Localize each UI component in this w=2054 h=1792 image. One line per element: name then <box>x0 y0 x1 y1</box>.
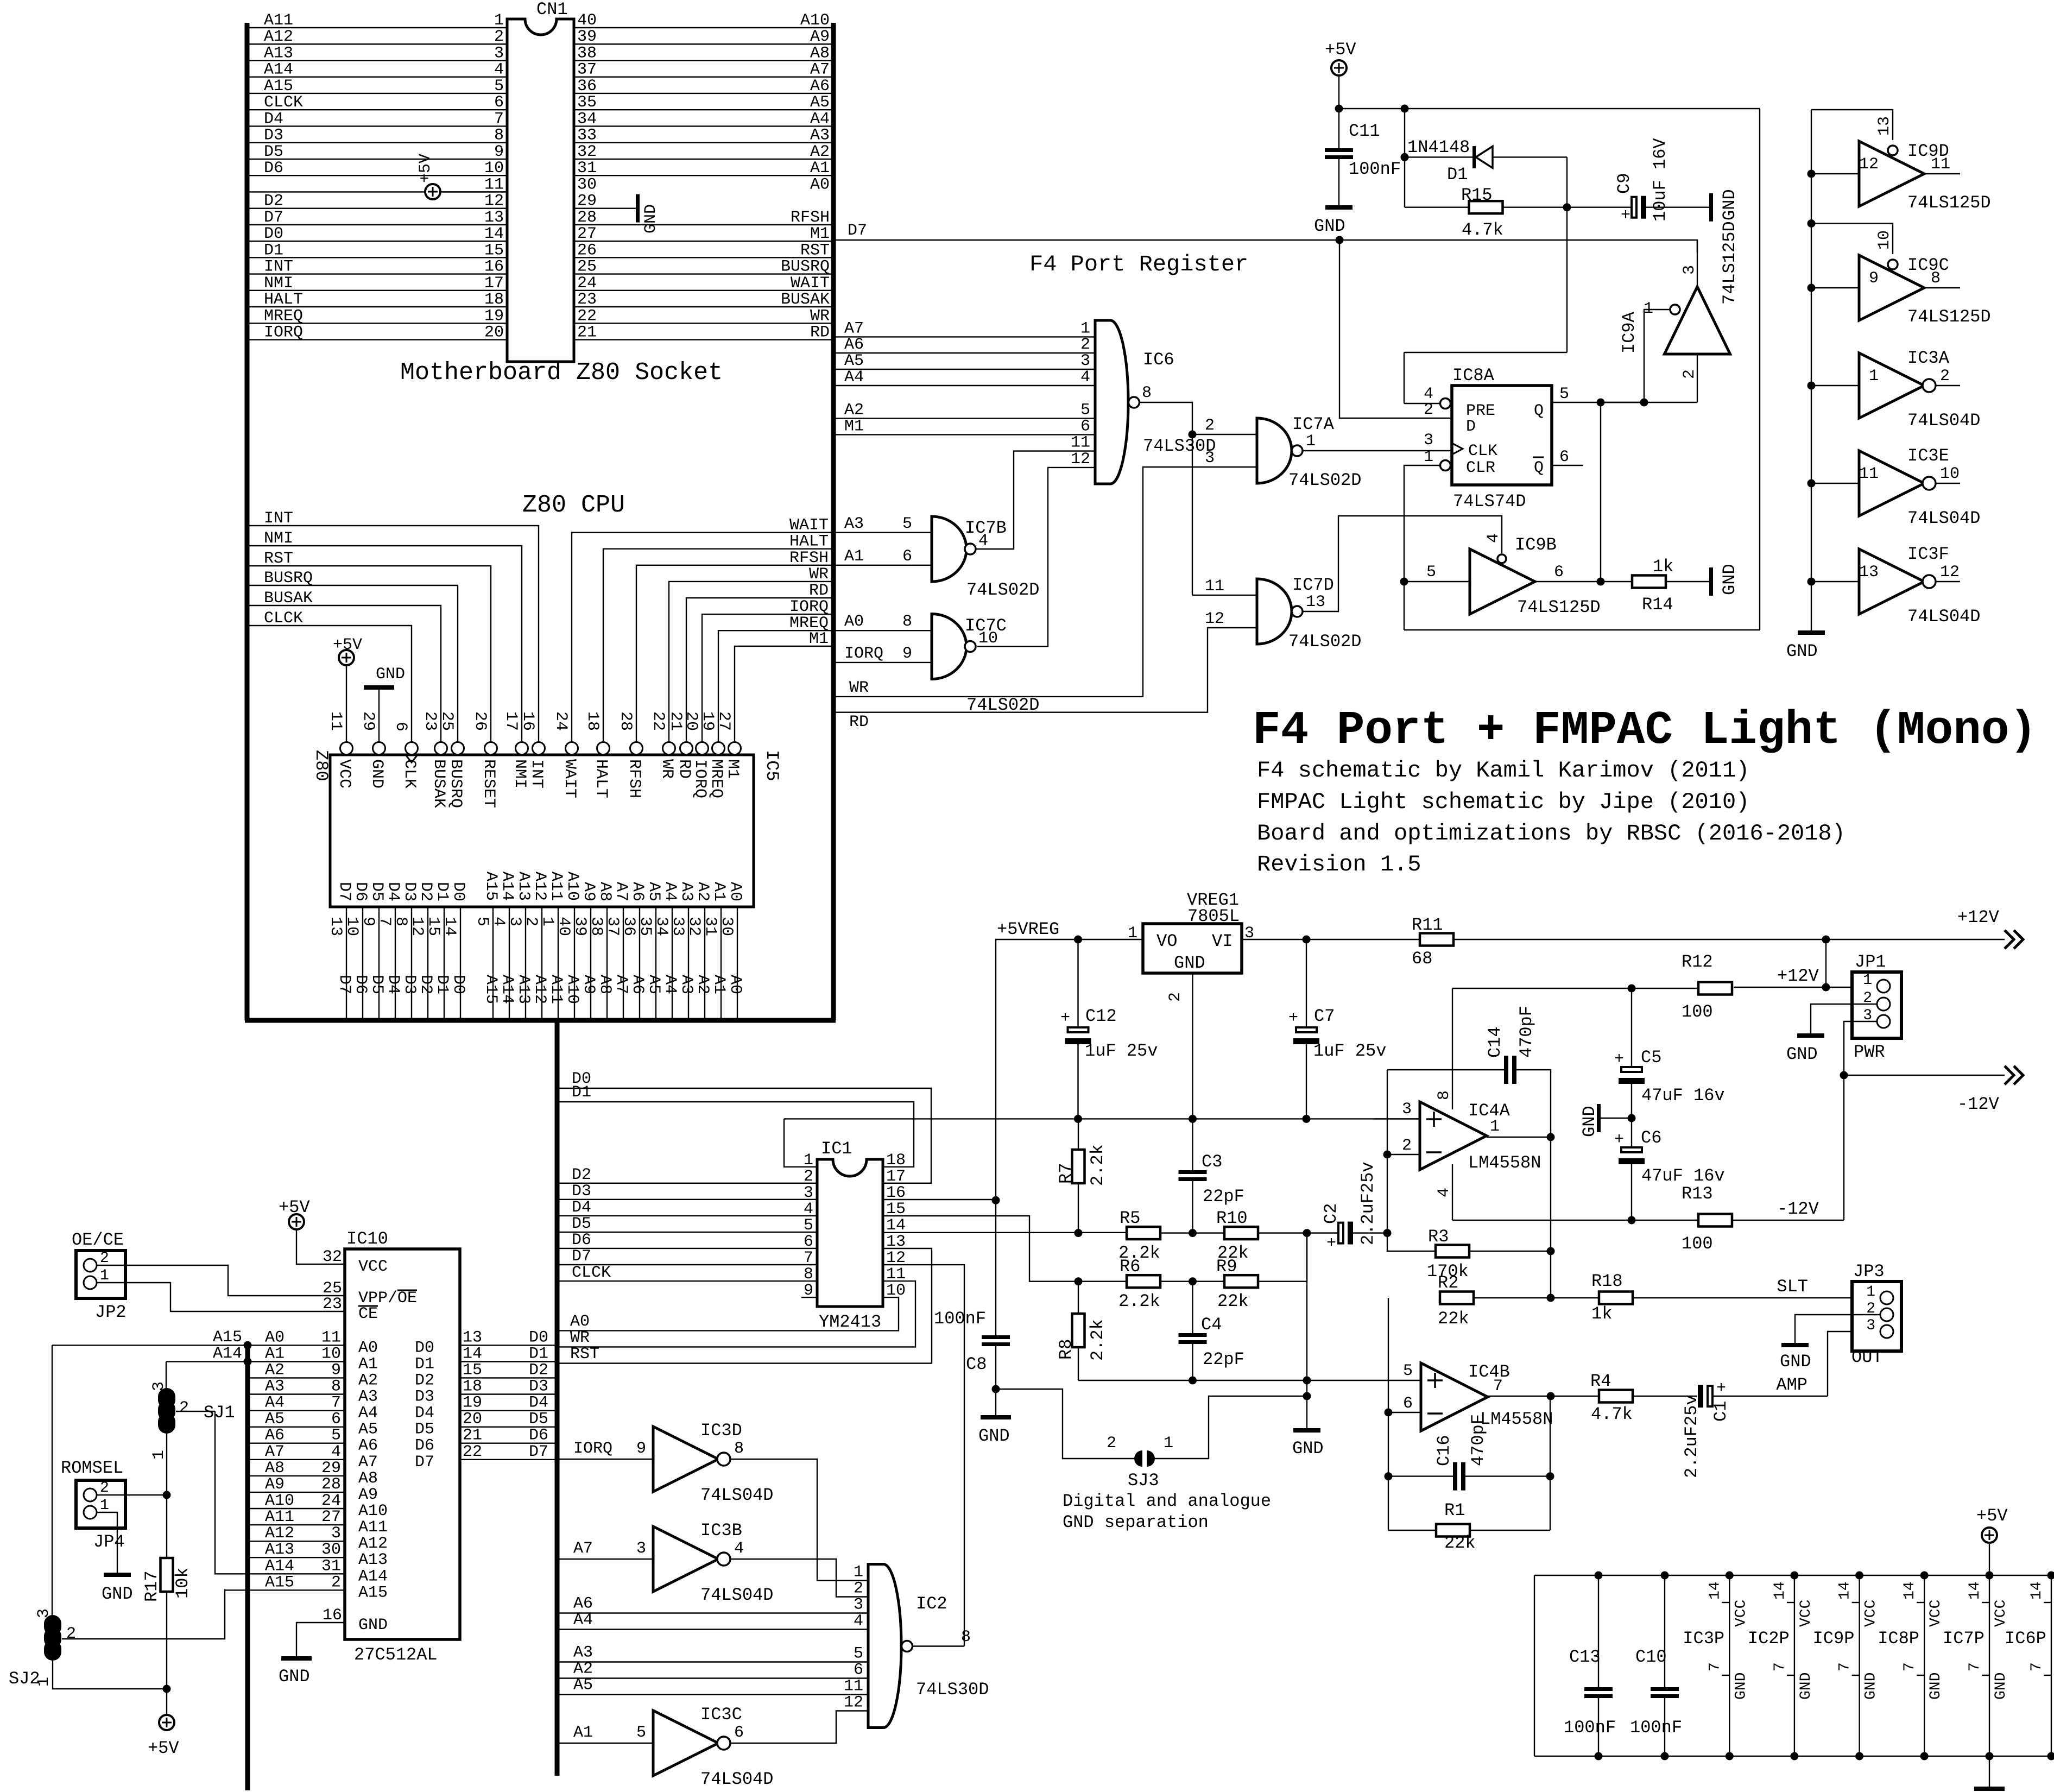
capacitor C12 1uF 25v <box>1077 939 1078 1027</box>
junction +5V rail at D1 branch <box>1401 105 1409 113</box>
wire CN1 pin 34 row <box>574 125 833 127</box>
capacitor C9 10uF 16V <box>1632 197 1636 218</box>
svg-text:9: 9 <box>902 645 912 663</box>
wire IC4A + input <box>1375 1118 1420 1119</box>
junction R5/R10 at C3 <box>1189 1229 1197 1237</box>
capacitor C4 22pF <box>1192 1282 1193 1333</box>
wire CN1 pin 23 row <box>574 306 833 307</box>
wire power block top rail <box>1534 1575 2054 1576</box>
svg-text:30: 30 <box>717 917 736 936</box>
resistor R15 <box>1405 207 1469 208</box>
sound chip IC1 YM2413 body <box>817 1159 883 1307</box>
svg-text:A2: A2 <box>693 975 712 994</box>
svg-text:A15: A15 <box>213 1328 242 1347</box>
gate IC2 74LS30D body <box>868 1564 901 1728</box>
svg-text:D5: D5 <box>368 975 386 994</box>
svg-text:10: 10 <box>321 1345 341 1363</box>
wire WR row to IC1 pin 11 <box>557 1281 915 1347</box>
power pins IC3P <box>1729 1575 1730 1756</box>
wire IC4A pin 4 V- stub <box>1452 1164 1453 1220</box>
wire D4 row to IC1 pin 4 <box>557 1215 817 1216</box>
wire CN1 pin 27 row <box>574 241 833 242</box>
junction +5V node <box>163 1685 171 1693</box>
wire JP2 pin 1 to CE <box>97 1283 345 1311</box>
svg-text:INT: INT <box>264 258 293 276</box>
connector JP2 body <box>76 1251 125 1298</box>
svg-text:20: 20 <box>484 324 504 342</box>
wire JP1 pin 2 to GND <box>1811 1004 1877 1033</box>
svg-text:D7: D7 <box>335 882 353 901</box>
svg-text:WAIT: WAIT <box>560 759 579 798</box>
svg-text:37: 37 <box>577 61 597 79</box>
svg-text:100nF: 100nF <box>1564 1718 1616 1738</box>
gate IC7B output bubble <box>965 544 976 554</box>
svg-text:A13: A13 <box>514 975 533 1004</box>
svg-text:A3: A3 <box>573 1644 593 1662</box>
svg-text:GND: GND <box>1786 1044 1818 1064</box>
gate IC7A 74LS02D body <box>1257 418 1292 483</box>
svg-text:A15: A15 <box>482 872 500 901</box>
svg-text:R3: R3 <box>1428 1227 1449 1247</box>
wire CLR to IC9B input rail <box>1404 465 1440 630</box>
junction bus at IC9C rail <box>1807 219 1816 228</box>
svg-text:2: 2 <box>100 1250 109 1267</box>
svg-text:14: 14 <box>886 1216 906 1235</box>
gate IC7C 74LS02D body <box>932 614 966 679</box>
wire IC9C output <box>1924 287 1960 288</box>
wire JP4 pin 2 to R17 node <box>97 1494 167 1496</box>
wire D3 row to IC1 pin 3 <box>557 1199 817 1200</box>
svg-text:IC2P: IC2P <box>1748 1629 1790 1649</box>
wire IC10 A5 row <box>248 1426 345 1427</box>
svg-text:26: 26 <box>577 241 597 260</box>
svg-text:29: 29 <box>321 1459 341 1478</box>
ground GND at right column bottom <box>1798 630 1825 635</box>
junction A15 at bus <box>244 1341 252 1349</box>
svg-text:12: 12 <box>1071 450 1090 469</box>
svg-text:9: 9 <box>331 1361 341 1379</box>
wire CLCK row to IC5 <box>247 626 412 742</box>
svg-text:11: 11 <box>1071 434 1090 452</box>
wire IC6 out branch to IC7A pin 2 <box>1192 434 1257 435</box>
inverter IC3F 74LS04D body <box>1859 549 1924 614</box>
svg-text:4: 4 <box>734 1539 744 1558</box>
svg-text:1: 1 <box>35 1677 53 1687</box>
wire IC10 A11 row <box>248 1524 345 1525</box>
wire CN1 pin 28 row <box>574 224 833 225</box>
svg-text:D2: D2 <box>416 882 435 901</box>
wire IC3C output to IC2 pin 12 <box>730 1711 868 1744</box>
svg-text:IC7D: IC7D <box>1292 575 1334 595</box>
wire CN1 pin 32 row <box>574 159 833 160</box>
wire JP1 pin 3 to -12V <box>1844 1021 1877 1220</box>
svg-text:R7: R7 <box>1056 1163 1076 1184</box>
svg-text:1: 1 <box>1866 1284 1875 1301</box>
svg-text:22pF: 22pF <box>1203 1349 1244 1370</box>
wire IC3A output <box>1936 385 1960 386</box>
svg-text:1: 1 <box>1164 1434 1173 1453</box>
wire CN1 pin 19 row <box>247 323 507 324</box>
svg-text:GND: GND <box>1798 1673 1815 1700</box>
svg-text:21: 21 <box>463 1427 482 1445</box>
wire CN1 pin 39 row <box>574 43 833 45</box>
svg-text:38: 38 <box>577 44 597 62</box>
junction VCC at C8 <box>992 1196 1000 1204</box>
wire IC10 A9 row <box>248 1492 345 1493</box>
wire SJ2 pad 1 to +5V node <box>53 1661 167 1689</box>
junction C10 bottom <box>1661 1752 1669 1761</box>
svg-text:C5: C5 <box>1641 1048 1661 1068</box>
wire IC7D pin 11 stub <box>1192 595 1257 596</box>
wire A3 row to IC7B pin 5 <box>833 532 932 533</box>
wire IC9A enable from Q <box>1644 310 1670 402</box>
cpu IC5 top pin 18 HALT <box>597 742 610 755</box>
svg-text:10: 10 <box>978 629 998 648</box>
svg-text:A15: A15 <box>264 77 293 96</box>
cpu IC5 top pin 22 WR <box>663 742 675 755</box>
wire SJ1 pad 2 to IC10 A14 <box>176 1411 215 1412</box>
junction R5 row at R7 <box>1075 1229 1083 1237</box>
svg-text:HALT: HALT <box>789 533 829 551</box>
svg-text:VO: VO <box>1156 931 1177 951</box>
svg-text:IC3A: IC3A <box>1907 348 1950 368</box>
wire CN1 pin 35 row <box>574 109 833 110</box>
buffer IC9D enable bubble <box>1888 146 1898 155</box>
svg-text:1: 1 <box>150 1450 168 1460</box>
wire CN1 pin 3 row <box>247 60 507 61</box>
resistor R7 2.2k <box>1078 1119 1079 1150</box>
svg-text:5: 5 <box>1426 563 1436 582</box>
wire R17 bottom to +5V <box>166 1689 167 1715</box>
svg-text:10uF 16V: 10uF 16V <box>1650 138 1670 222</box>
svg-text:D5: D5 <box>415 1421 434 1439</box>
svg-text:14: 14 <box>1772 1581 1788 1600</box>
junction R15 right <box>1563 203 1571 211</box>
svg-text:GND: GND <box>1579 1106 1600 1137</box>
svg-text:9: 9 <box>359 917 377 926</box>
ground GND right of R14 <box>1709 567 1713 596</box>
svg-text:2: 2 <box>522 917 540 926</box>
svg-text:M1: M1 <box>809 630 829 648</box>
svg-text:6: 6 <box>331 1410 341 1429</box>
svg-text:A6: A6 <box>628 975 647 994</box>
svg-text:A2: A2 <box>810 143 830 161</box>
wire A1 row to IC7B pin 6 <box>833 565 932 566</box>
junction A14 at bus <box>244 1358 252 1366</box>
resistor R11 68 <box>1420 933 1453 946</box>
wire VREG1 VI to R11 <box>1242 939 1420 940</box>
svg-text:GND: GND <box>1720 189 1740 220</box>
op-amp IC4B body <box>1421 1363 1488 1431</box>
svg-text:25: 25 <box>577 258 597 276</box>
wire IC3B input row <box>557 1558 653 1560</box>
svg-text:23: 23 <box>323 1295 342 1314</box>
svg-text:A14: A14 <box>498 872 516 901</box>
junction +5V rail at C11 <box>1335 105 1343 113</box>
svg-text:470pF: 470pF <box>1468 1414 1488 1466</box>
svg-text:A6: A6 <box>265 1427 285 1445</box>
svg-text:27: 27 <box>577 225 597 243</box>
resistor R18 1k <box>1599 1292 1633 1304</box>
svg-text:VCC: VCC <box>335 759 353 788</box>
svg-text:39: 39 <box>571 917 589 936</box>
junction output at R2 <box>1547 1294 1555 1302</box>
wire IC4A - input <box>1387 1154 1420 1155</box>
wire IC7D output to IC9B enable <box>1303 516 1502 611</box>
svg-text:27: 27 <box>321 1508 341 1526</box>
svg-text:C3: C3 <box>1202 1152 1222 1172</box>
svg-text:10: 10 <box>484 159 504 178</box>
svg-text:A11: A11 <box>358 1518 388 1537</box>
svg-text:D6: D6 <box>351 975 370 994</box>
ground GND below JP4 <box>104 1573 131 1577</box>
wire R14 to GND <box>1666 581 1709 582</box>
wire IC10 A15 row <box>225 1589 345 1591</box>
svg-text:A6: A6 <box>358 1437 378 1455</box>
wire IC4B output <box>1488 1396 1599 1397</box>
Z80 socket block outer frame left bus <box>245 23 250 1020</box>
svg-text:IC10: IC10 <box>346 1229 388 1249</box>
wire PRE pullup vertical <box>1566 157 1568 352</box>
svg-text:Z80 CPU: Z80 CPU <box>522 491 625 519</box>
wire R2 right <box>1474 1297 1551 1298</box>
svg-text:IC8A: IC8A <box>1452 365 1495 386</box>
svg-text:RST: RST <box>570 1345 599 1364</box>
svg-text:11: 11 <box>1205 577 1224 596</box>
svg-text:14: 14 <box>463 1345 482 1363</box>
resistor R5 2.2k <box>1127 1227 1160 1239</box>
wire C14 to output vertical <box>1516 1070 1551 1137</box>
wire R11 to +12V arrow <box>1453 939 2005 940</box>
svg-text:D4: D4 <box>384 882 402 901</box>
svg-text:23: 23 <box>421 711 439 731</box>
svg-text:A9: A9 <box>265 1475 285 1494</box>
svg-text:100nF: 100nF <box>1349 159 1401 179</box>
svg-text:1uF 25v: 1uF 25v <box>1085 1041 1158 1061</box>
Z80 socket block outer frame right bus <box>831 23 836 1020</box>
wire IC9C input <box>1811 287 1859 288</box>
svg-text:SLT: SLT <box>1777 1277 1808 1297</box>
junction bus at IC9D <box>1807 170 1816 178</box>
wire IC3F input <box>1811 581 1859 582</box>
ground GND right of C9 <box>1709 193 1713 222</box>
wire IC10 GND pin 16 <box>296 1623 345 1656</box>
svg-text:15: 15 <box>463 1361 482 1379</box>
svg-text:+12V: +12V <box>1957 907 2000 927</box>
gate IC7D 74LS02D body <box>1257 579 1292 644</box>
svg-text:IORQ: IORQ <box>844 645 883 663</box>
cpu IC5 bottom pin 40 A10 <box>574 907 575 1020</box>
wire R4 to C1 <box>1633 1396 1697 1397</box>
svg-text:D0: D0 <box>449 975 467 994</box>
wire D2 row to IC1 pin 2 <box>557 1183 817 1184</box>
wire R6 row from IC1 pin 15 <box>883 1216 1127 1282</box>
svg-text:3: 3 <box>1205 449 1215 468</box>
svg-text:IC6: IC6 <box>1143 350 1174 370</box>
svg-text:47uF 16v: 47uF 16v <box>1641 1086 1725 1106</box>
svg-text:1: 1 <box>1424 448 1433 466</box>
svg-text:12: 12 <box>844 1694 863 1712</box>
svg-text:A4: A4 <box>661 882 679 901</box>
svg-text:GND: GND <box>1292 1438 1324 1459</box>
svg-text:CE: CE <box>358 1305 378 1323</box>
svg-text:2: 2 <box>1424 401 1433 419</box>
wire CN1 pin 5 row <box>247 93 507 94</box>
svg-text:IC3C: IC3C <box>700 1705 742 1725</box>
svg-text:74LS02D: 74LS02D <box>966 580 1039 600</box>
wire CN1 pin 37 row <box>574 77 833 78</box>
junction + row at C4 <box>1189 1377 1197 1385</box>
wire CN1 pin 8 row <box>247 142 507 143</box>
svg-text:10: 10 <box>343 917 361 936</box>
svg-text:12: 12 <box>484 192 504 211</box>
ground GND at IC4B input <box>1293 1428 1320 1433</box>
svg-text:A1: A1 <box>710 882 728 901</box>
wire RD row to IC7D pin 12 <box>833 628 1257 712</box>
svg-text:+: + <box>1716 1379 1726 1398</box>
wire IC10 D4 row <box>460 1410 557 1411</box>
svg-text:WR: WR <box>849 679 869 697</box>
wire feedback vertical <box>1387 1070 1388 1233</box>
svg-text:22: 22 <box>649 711 667 731</box>
svg-text:GND: GND <box>642 204 660 234</box>
svg-text:29: 29 <box>577 192 597 211</box>
diode D1 1N4148 <box>1472 146 1476 168</box>
svg-text:R2: R2 <box>1438 1273 1458 1293</box>
junction bus at IC3E <box>1807 479 1816 488</box>
bus address thick vertical at IC10 <box>245 1343 250 1790</box>
svg-text:A5: A5 <box>644 975 663 994</box>
wire IC10 A6 row <box>248 1443 345 1444</box>
svg-text:C12: C12 <box>1085 1006 1117 1026</box>
wire Q down to IC9B output node <box>1600 402 1601 582</box>
inverter IC3B output bubble <box>717 1553 730 1566</box>
svg-text:12: 12 <box>1940 563 1960 582</box>
wire power block bottom rail <box>1534 1756 2054 1757</box>
svg-text:A1: A1 <box>265 1345 285 1363</box>
svg-text:A15: A15 <box>482 975 500 1004</box>
wire analog plus rail <box>784 1118 1420 1119</box>
power pins IC6P <box>2051 1575 2052 1756</box>
svg-text:7: 7 <box>1707 1662 1723 1671</box>
svg-text:D3: D3 <box>529 1378 548 1396</box>
wire IC9C enable rail <box>1811 224 1893 255</box>
svg-text:74LS125D: 74LS125D <box>1517 597 1601 617</box>
wire IC10 A10 row <box>248 1508 345 1509</box>
wire C1 to AMP corner <box>1712 1396 1828 1397</box>
cpu IC5 bottom pin 35 A5 <box>655 907 656 1020</box>
svg-text:38: 38 <box>587 917 605 936</box>
buffer IC9C 74LS125D body <box>1859 255 1924 320</box>
svg-text:+: + <box>1621 206 1630 225</box>
svg-text:R1: R1 <box>1444 1500 1465 1520</box>
wire A3 row to IC2 <box>557 1661 868 1662</box>
wire IC10 A3 row <box>248 1393 345 1395</box>
svg-text:8: 8 <box>961 1628 971 1646</box>
resistor R17 10k <box>166 1495 167 1558</box>
svg-text:31: 31 <box>321 1557 341 1575</box>
svg-text:14: 14 <box>440 917 459 936</box>
svg-text:A6: A6 <box>573 1595 593 1613</box>
svg-text:IC2: IC2 <box>916 1594 947 1614</box>
svg-text:7: 7 <box>1493 1377 1503 1396</box>
junction - input feedback <box>1383 1151 1392 1159</box>
wire CN1 pin 9 row <box>247 159 507 160</box>
svg-text:CLK: CLK <box>400 759 419 788</box>
svg-text:WR: WR <box>810 307 830 325</box>
svg-text:2: 2 <box>1205 417 1215 435</box>
wire IC10 A2 row <box>248 1377 345 1378</box>
wire to IC8A PRE bubble <box>1404 403 1440 404</box>
svg-text:D4: D4 <box>529 1394 548 1412</box>
wire A6 row to IC6 <box>833 352 1095 354</box>
svg-text:JP4: JP4 <box>93 1532 125 1552</box>
connector JP3 pin 1 circle <box>1880 1291 1893 1304</box>
junction - input <box>1385 1409 1393 1417</box>
svg-text:A1: A1 <box>710 975 728 994</box>
svg-text:5: 5 <box>494 77 504 96</box>
svg-text:VCC: VCC <box>1863 1600 1880 1627</box>
svg-text:RD: RD <box>809 582 829 600</box>
svg-text:5: 5 <box>1080 401 1090 419</box>
svg-text:A1: A1 <box>810 159 830 178</box>
buffer IC9A 74LS125D body <box>1665 287 1730 354</box>
svg-text:CLR: CLR <box>1466 459 1495 477</box>
arrow -12V out <box>2005 1066 2014 1084</box>
svg-text:R9: R9 <box>1216 1257 1237 1277</box>
wire IC9D output <box>1924 173 1960 174</box>
power +5V at CN1 pin 11 <box>425 184 440 199</box>
wire IC10 A12 row <box>248 1541 345 1542</box>
capacitor C14 470pF <box>1504 1056 1508 1084</box>
svg-text:74LS02D: 74LS02D <box>1288 632 1361 652</box>
wire CN1 pin 18 row <box>247 306 507 307</box>
svg-text:MREQ: MREQ <box>264 307 303 325</box>
junction + row at C2 drop <box>1303 1377 1311 1385</box>
svg-text:+: + <box>1614 1050 1624 1069</box>
svg-text:LM4558N: LM4558N <box>1480 1409 1553 1429</box>
wire PRE feed horizontal <box>1404 352 1567 353</box>
wire CN1 pin 24 row <box>574 290 833 291</box>
svg-text:D1: D1 <box>572 1083 591 1102</box>
svg-text:18: 18 <box>463 1378 482 1396</box>
svg-text:C9: C9 <box>1614 173 1634 194</box>
svg-text:D4: D4 <box>264 110 283 128</box>
wire Q output <box>1552 402 1644 403</box>
svg-text:IC4B: IC4B <box>1468 1362 1510 1382</box>
svg-text:74LS02D: 74LS02D <box>1288 470 1361 490</box>
bus data thick vertical from Z80 block <box>555 1020 560 1776</box>
svg-text:4: 4 <box>1484 533 1503 543</box>
svg-text:WR: WR <box>570 1329 590 1347</box>
svg-text:3: 3 <box>1402 1100 1412 1119</box>
wire IC1 pin 16 VCC to +5VREG <box>883 1199 996 1200</box>
wire IC10 A13 row <box>248 1557 345 1558</box>
svg-text:A12: A12 <box>265 1524 294 1543</box>
cpu IC5 bottom pin 13 D7 <box>346 907 347 1020</box>
junction C5/C6 midpoint <box>1628 1114 1636 1122</box>
wire BUSAK row to IC5 <box>247 605 441 742</box>
svg-text:7: 7 <box>331 1394 341 1412</box>
connector JP4 pin 1 circle <box>84 1506 97 1519</box>
cpu IC5 top pin 26 RESET <box>485 742 497 755</box>
wire R10 to C2 <box>1258 1232 1338 1233</box>
svg-text:32: 32 <box>323 1248 342 1266</box>
svg-text:GND separation: GND separation <box>1063 1512 1209 1532</box>
junction output at R3 <box>1547 1247 1555 1255</box>
wire VREG1 GND pin 2 <box>1192 973 1193 1119</box>
svg-text:2: 2 <box>1107 1434 1116 1453</box>
